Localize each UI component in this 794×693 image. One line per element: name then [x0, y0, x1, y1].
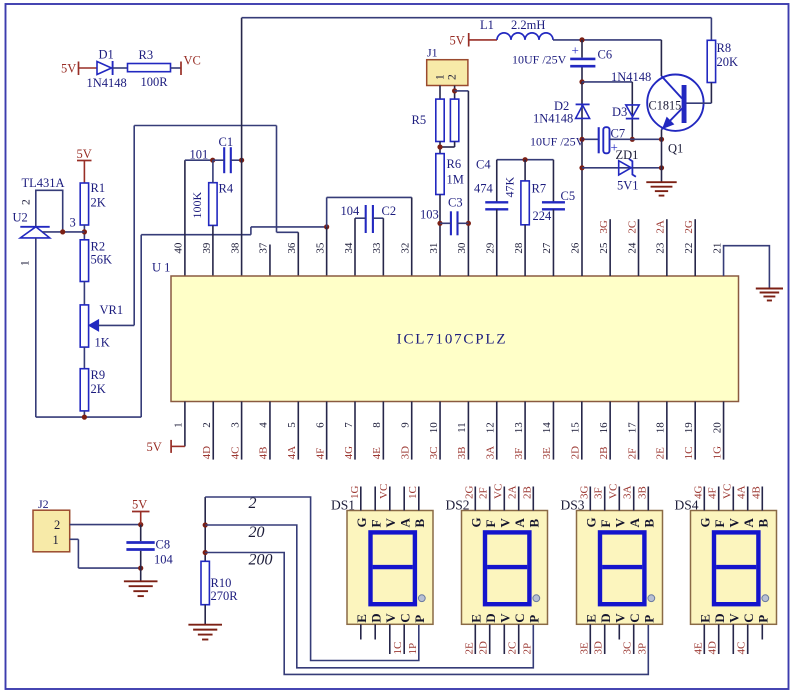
svg-text:3B: 3B — [456, 447, 468, 460]
svg-text:VC: VC — [492, 484, 504, 499]
svg-text:2G: 2G — [683, 220, 695, 234]
svg-text:A: A — [627, 518, 642, 528]
svg-text:1: 1 — [173, 422, 185, 428]
svg-text:2C: 2C — [626, 221, 638, 234]
svg-text:ZD1: ZD1 — [616, 148, 639, 162]
svg-text:104: 104 — [341, 204, 361, 218]
svg-text:2: 2 — [21, 199, 33, 205]
svg-text:101: 101 — [190, 148, 209, 162]
svg-text:39: 39 — [201, 242, 213, 254]
svg-text:L1: L1 — [480, 18, 494, 32]
svg-text:5V: 5V — [77, 147, 92, 161]
svg-text:P: P — [412, 615, 427, 623]
svg-text:3D: 3D — [593, 641, 605, 655]
svg-text:4E: 4E — [371, 447, 383, 460]
svg-text:F: F — [598, 520, 613, 528]
svg-text:V: V — [498, 518, 513, 528]
svg-text:100K: 100K — [190, 192, 204, 219]
svg-text:3P: 3P — [636, 643, 648, 655]
svg-text:3C: 3C — [622, 642, 634, 655]
svg-text:18: 18 — [655, 422, 667, 434]
svg-text:A: A — [741, 518, 756, 528]
svg-text:270R: 270R — [211, 589, 239, 603]
svg-text:16: 16 — [598, 422, 610, 434]
svg-text:6: 6 — [314, 422, 326, 428]
svg-text:F: F — [483, 520, 498, 528]
svg-text:2: 2 — [201, 422, 213, 428]
svg-text:4G: 4G — [343, 446, 355, 460]
svg-text:1C: 1C — [392, 642, 404, 655]
svg-text:47K: 47K — [503, 177, 517, 198]
svg-text:C: C — [512, 613, 527, 622]
svg-text:4D: 4D — [707, 641, 719, 655]
svg-text:A: A — [512, 518, 527, 528]
svg-text:R7: R7 — [532, 182, 547, 196]
svg-text:2P: 2P — [521, 643, 533, 655]
svg-text:36: 36 — [286, 242, 298, 254]
svg-text:B: B — [412, 519, 427, 528]
svg-text:3D: 3D — [400, 446, 412, 460]
svg-text:28: 28 — [513, 242, 525, 254]
svg-text:2: 2 — [447, 74, 459, 80]
svg-text:27: 27 — [541, 242, 553, 254]
svg-text:1: 1 — [435, 74, 447, 80]
svg-text:V: V — [383, 613, 398, 623]
svg-text:C1: C1 — [219, 135, 234, 149]
svg-text:TL431A: TL431A — [22, 176, 65, 190]
svg-text:1: 1 — [20, 260, 32, 266]
svg-text:2F: 2F — [626, 448, 638, 460]
svg-text:3A: 3A — [485, 446, 497, 460]
svg-text:4E: 4E — [692, 642, 704, 655]
svg-text:35: 35 — [314, 242, 326, 254]
svg-text:4B: 4B — [258, 447, 270, 460]
svg-text:D: D — [712, 613, 727, 622]
svg-text:F: F — [712, 520, 727, 528]
svg-text:10UF /25V: 10UF /25V — [512, 53, 567, 67]
svg-text:3F: 3F — [513, 448, 525, 460]
svg-text:4G: 4G — [692, 486, 704, 500]
svg-text:F: F — [368, 520, 383, 528]
svg-text:2A: 2A — [655, 220, 667, 234]
svg-text:2E: 2E — [463, 642, 475, 655]
svg-text:V: V — [727, 518, 742, 528]
svg-text:474: 474 — [474, 182, 494, 196]
svg-text:3F: 3F — [593, 487, 605, 499]
svg-text:2.2mH: 2.2mH — [511, 18, 545, 32]
svg-text:5V: 5V — [61, 62, 76, 76]
svg-text:R10: R10 — [211, 576, 232, 590]
svg-text:1M: 1M — [447, 173, 464, 187]
svg-text:J2: J2 — [38, 497, 49, 511]
svg-text:26: 26 — [570, 242, 582, 254]
svg-text:2F: 2F — [478, 487, 490, 499]
svg-text:E: E — [584, 614, 599, 623]
svg-text:1: 1 — [53, 533, 59, 547]
svg-text:40: 40 — [173, 242, 185, 254]
svg-text:G: G — [469, 517, 484, 527]
svg-text:1N4148: 1N4148 — [533, 112, 573, 126]
svg-text:4B: 4B — [750, 486, 762, 499]
svg-text:56K: 56K — [91, 253, 113, 267]
svg-text:C: C — [627, 613, 642, 622]
svg-text:33: 33 — [371, 242, 383, 254]
svg-text:D3: D3 — [612, 105, 627, 119]
svg-text:32: 32 — [400, 243, 412, 254]
svg-text:12: 12 — [485, 422, 497, 433]
svg-text:C6: C6 — [598, 48, 613, 62]
svg-text:5V: 5V — [147, 440, 162, 454]
svg-text:4A: 4A — [286, 446, 298, 460]
svg-text:1C: 1C — [407, 486, 419, 499]
svg-text:17: 17 — [626, 422, 638, 434]
svg-text:C: C — [741, 613, 756, 622]
svg-text:C7: C7 — [611, 127, 626, 141]
svg-text:P: P — [756, 615, 771, 623]
svg-text:1N4148: 1N4148 — [87, 76, 127, 90]
svg-text:D1: D1 — [99, 48, 114, 62]
svg-text:V: V — [383, 518, 398, 528]
svg-text:1G: 1G — [349, 486, 361, 500]
svg-text:D: D — [598, 613, 613, 622]
svg-text:3E: 3E — [578, 642, 590, 655]
svg-text:3B: 3B — [636, 486, 648, 499]
svg-text:E: E — [354, 614, 369, 623]
svg-text:20: 20 — [249, 524, 265, 541]
svg-text:4: 4 — [258, 422, 270, 428]
svg-text:E: E — [469, 614, 484, 623]
svg-text:15: 15 — [570, 422, 582, 434]
svg-text:2: 2 — [249, 495, 257, 512]
svg-text:10UF /25V: 10UF /25V — [530, 135, 585, 149]
svg-text:10: 10 — [428, 422, 440, 434]
svg-text:22: 22 — [683, 243, 695, 254]
svg-text:38: 38 — [229, 242, 241, 254]
svg-text:C5: C5 — [561, 189, 576, 203]
svg-text:3: 3 — [70, 216, 76, 230]
svg-text:3A: 3A — [622, 486, 634, 500]
svg-text:3G: 3G — [578, 486, 590, 500]
svg-text:C2: C2 — [382, 204, 397, 218]
svg-text:20K: 20K — [717, 55, 739, 69]
svg-text:4F: 4F — [707, 487, 719, 499]
svg-text:1C: 1C — [683, 447, 695, 460]
svg-text:4A: 4A — [736, 486, 748, 500]
svg-text:VC: VC — [378, 484, 390, 499]
svg-text:2G: 2G — [463, 486, 475, 500]
svg-text:200: 200 — [249, 552, 273, 569]
svg-text:5V1: 5V1 — [617, 179, 639, 193]
svg-text:31: 31 — [428, 243, 440, 254]
svg-text:100R: 100R — [141, 75, 169, 89]
svg-text:4F: 4F — [314, 448, 326, 460]
svg-text:23: 23 — [655, 242, 667, 254]
svg-text:R1: R1 — [91, 181, 106, 195]
svg-text:37: 37 — [258, 242, 270, 254]
svg-text:G: G — [354, 517, 369, 527]
svg-text:D: D — [483, 613, 498, 622]
svg-text:+: + — [572, 43, 579, 58]
svg-text:B: B — [756, 519, 771, 528]
svg-text:1N4148: 1N4148 — [611, 70, 651, 84]
svg-text:U 1: U 1 — [152, 261, 170, 275]
svg-text:3E: 3E — [541, 447, 553, 460]
svg-text:30: 30 — [456, 242, 468, 254]
svg-text:R6: R6 — [447, 157, 462, 171]
svg-text:D: D — [368, 613, 383, 622]
svg-text:19: 19 — [683, 422, 695, 434]
svg-text:8: 8 — [371, 422, 383, 428]
svg-text:R3: R3 — [139, 48, 154, 62]
svg-text:9: 9 — [400, 422, 412, 428]
svg-text:E: E — [698, 614, 713, 623]
svg-text:1G: 1G — [711, 446, 723, 460]
svg-text:5V: 5V — [132, 498, 147, 512]
svg-text:3C: 3C — [428, 447, 440, 460]
svg-text:A: A — [397, 518, 412, 528]
svg-text:5V: 5V — [450, 34, 465, 48]
svg-text:14: 14 — [541, 422, 553, 434]
svg-text:VR1: VR1 — [100, 303, 124, 317]
svg-text:4D: 4D — [201, 446, 213, 460]
svg-text:C8: C8 — [156, 538, 171, 552]
svg-text:VC: VC — [184, 54, 201, 68]
svg-text:104: 104 — [154, 553, 174, 567]
svg-text:2B: 2B — [598, 447, 610, 460]
svg-text:B: B — [642, 519, 657, 528]
svg-text:G: G — [698, 517, 713, 527]
svg-text:4C: 4C — [736, 642, 748, 655]
svg-text:2C: 2C — [507, 642, 519, 655]
svg-text:C4: C4 — [476, 158, 491, 172]
svg-text:U2: U2 — [13, 211, 28, 225]
svg-text:2K: 2K — [91, 196, 106, 210]
svg-text:2E: 2E — [655, 447, 667, 460]
svg-text:C1815: C1815 — [649, 99, 682, 113]
svg-text:1K: 1K — [95, 336, 110, 350]
svg-text:R8: R8 — [717, 41, 732, 55]
svg-text:V: V — [498, 613, 513, 623]
svg-text:13: 13 — [513, 422, 525, 434]
svg-text:P: P — [642, 615, 657, 623]
svg-text:G: G — [584, 517, 599, 527]
svg-text:ICL7107CPLZ: ICL7107CPLZ — [397, 332, 508, 348]
svg-text:2: 2 — [54, 518, 60, 532]
svg-text:24: 24 — [626, 242, 638, 254]
svg-text:2D: 2D — [478, 641, 490, 655]
svg-text:R2: R2 — [91, 240, 106, 254]
svg-text:2K: 2K — [91, 382, 106, 396]
svg-text:34: 34 — [343, 242, 355, 254]
svg-text:11: 11 — [456, 422, 468, 433]
svg-text:V: V — [613, 518, 628, 528]
svg-text:R4: R4 — [219, 182, 234, 196]
svg-text:4C: 4C — [229, 447, 241, 460]
svg-text:3G: 3G — [598, 220, 610, 234]
svg-text:R5: R5 — [412, 113, 427, 127]
svg-text:1P: 1P — [407, 643, 419, 655]
svg-text:2A: 2A — [507, 486, 519, 500]
svg-text:20: 20 — [711, 422, 723, 434]
svg-text:5: 5 — [286, 422, 298, 428]
svg-text:VC: VC — [721, 484, 733, 499]
svg-text:B: B — [527, 519, 542, 528]
svg-text:Q1: Q1 — [668, 142, 683, 156]
svg-text:V: V — [727, 613, 742, 623]
svg-text:P: P — [527, 615, 542, 623]
svg-text:C: C — [397, 613, 412, 622]
svg-text:2B: 2B — [521, 486, 533, 499]
svg-text:25: 25 — [598, 242, 610, 254]
svg-text:3: 3 — [229, 422, 241, 428]
svg-text:C3: C3 — [448, 196, 463, 210]
svg-text:V: V — [613, 613, 628, 623]
svg-text:2D: 2D — [570, 446, 582, 460]
svg-text:R9: R9 — [91, 368, 106, 382]
svg-text:21: 21 — [711, 243, 723, 254]
svg-text:VC: VC — [607, 484, 619, 499]
svg-text:J1: J1 — [427, 46, 438, 60]
svg-text:103: 103 — [420, 208, 439, 222]
svg-text:29: 29 — [485, 242, 497, 254]
svg-text:224: 224 — [533, 209, 553, 223]
svg-text:7: 7 — [343, 422, 355, 428]
